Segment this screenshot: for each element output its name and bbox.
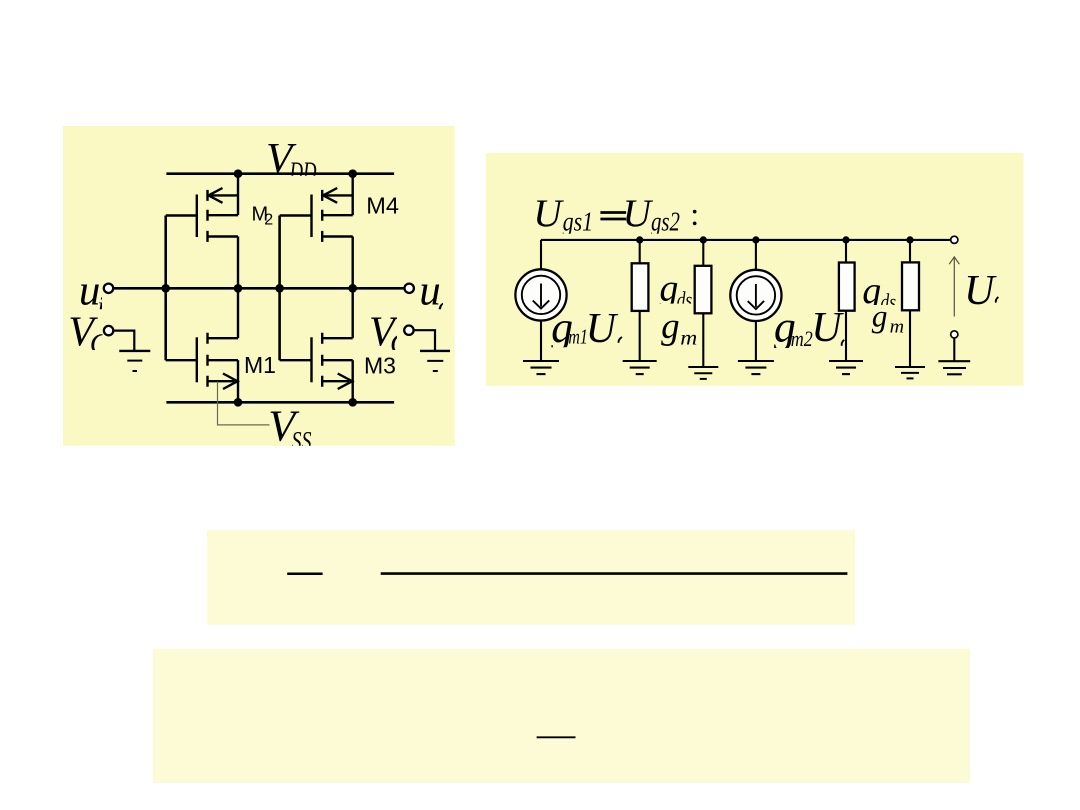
junction VDD-M2 — [234, 169, 243, 178]
label gm4 — [872, 298, 905, 337]
VSS rail — [166, 401, 394, 404]
ground VC left — [119, 351, 150, 371]
label gm2 — [661, 306, 697, 349]
terminal Uo bottom — [951, 331, 958, 338]
terminal u_i — [104, 284, 113, 293]
svg-text:U: U — [811, 305, 844, 351]
equation panel 2 — [153, 649, 970, 783]
equation 1 fraction bar small — [287, 573, 322, 576]
label gds1 — [659, 268, 692, 312]
svg-text:M1: M1 — [244, 352, 276, 378]
svg-text:gs1: gs1 — [563, 207, 594, 237]
ground current source gm2 — [738, 361, 774, 374]
VSS label — [268, 401, 311, 455]
transistor M2 (PMOS) — [166, 174, 238, 289]
svg-text:m: m — [680, 325, 697, 349]
transistor M4 (PMOS) — [280, 174, 353, 289]
label u_i — [79, 267, 105, 321]
current source gm2 — [730, 240, 781, 361]
arrow Uo — [949, 257, 959, 317]
label gm2 Ui — [774, 303, 844, 352]
equation panel 1 — [207, 530, 855, 625]
node Ugs title — [533, 191, 699, 236]
terminal u_o — [405, 284, 414, 293]
ground resistor gm4 — [895, 367, 925, 378]
label gm1 Ui — [551, 303, 622, 352]
resistor gds1 — [632, 240, 649, 361]
ground Uo — [938, 361, 970, 374]
resistor gm4 — [902, 240, 919, 367]
wire right gate vertical — [278, 216, 281, 361]
wire VC left to ground — [113, 331, 134, 350]
right schematic panel — [486, 153, 1024, 386]
svg-text:U: U — [533, 191, 564, 235]
resistor gds2 — [839, 240, 855, 361]
svg-text:m2: m2 — [791, 326, 813, 351]
junction dots top wire — [636, 236, 643, 243]
wire input lead and output node line — [113, 287, 404, 290]
wire left gate vertical — [164, 216, 167, 361]
ground current source gm1 — [523, 361, 559, 374]
current source gm1 — [515, 240, 566, 361]
junction VSS-M1 — [234, 398, 243, 407]
VDD label — [266, 136, 317, 187]
VSS leader line — [218, 382, 270, 425]
svg-text:g: g — [661, 306, 680, 347]
svg-text:SS: SS — [292, 427, 312, 456]
VDD rail — [166, 172, 394, 175]
label Uo — [964, 268, 998, 314]
label gds2 — [862, 270, 896, 314]
junction VDD-M4 — [348, 169, 357, 178]
equation 1 fraction bar long — [381, 572, 848, 575]
svg-text:2: 2 — [264, 212, 273, 229]
terminal Uo top — [951, 236, 958, 243]
svg-text:U: U — [964, 268, 997, 314]
ground resistor gds1 — [623, 361, 657, 374]
ground resistor gds2 — [829, 361, 863, 374]
svg-text:U: U — [623, 191, 654, 235]
label VC left — [68, 310, 111, 360]
transistor M1 (NMOS) — [166, 288, 238, 402]
left schematic panel — [63, 126, 455, 446]
svg-text:gs2: gs2 — [651, 207, 680, 237]
label M2 — [252, 203, 274, 228]
svg-text::: : — [690, 196, 699, 232]
svg-text:M3: M3 — [364, 352, 396, 378]
svg-text:M4: M4 — [366, 192, 399, 218]
label VC right — [369, 310, 411, 360]
transistor M3 (NMOS) — [280, 288, 353, 402]
junction VSS-M3 — [348, 398, 357, 407]
node A junction dots — [161, 284, 170, 293]
equation 2 fraction bar — [537, 736, 576, 738]
svg-text:U: U — [586, 306, 619, 352]
wire VC right to ground — [414, 330, 436, 350]
terminal VC left — [104, 326, 113, 335]
resistor gm2 (diode load) — [695, 240, 712, 367]
wire top node — [541, 239, 951, 241]
terminal VC right — [404, 326, 413, 335]
ground resistor gm2 — [688, 367, 718, 379]
ground VC right — [420, 351, 450, 371]
label u_o — [419, 267, 451, 321]
wire Uo bottom to ground — [953, 338, 955, 361]
